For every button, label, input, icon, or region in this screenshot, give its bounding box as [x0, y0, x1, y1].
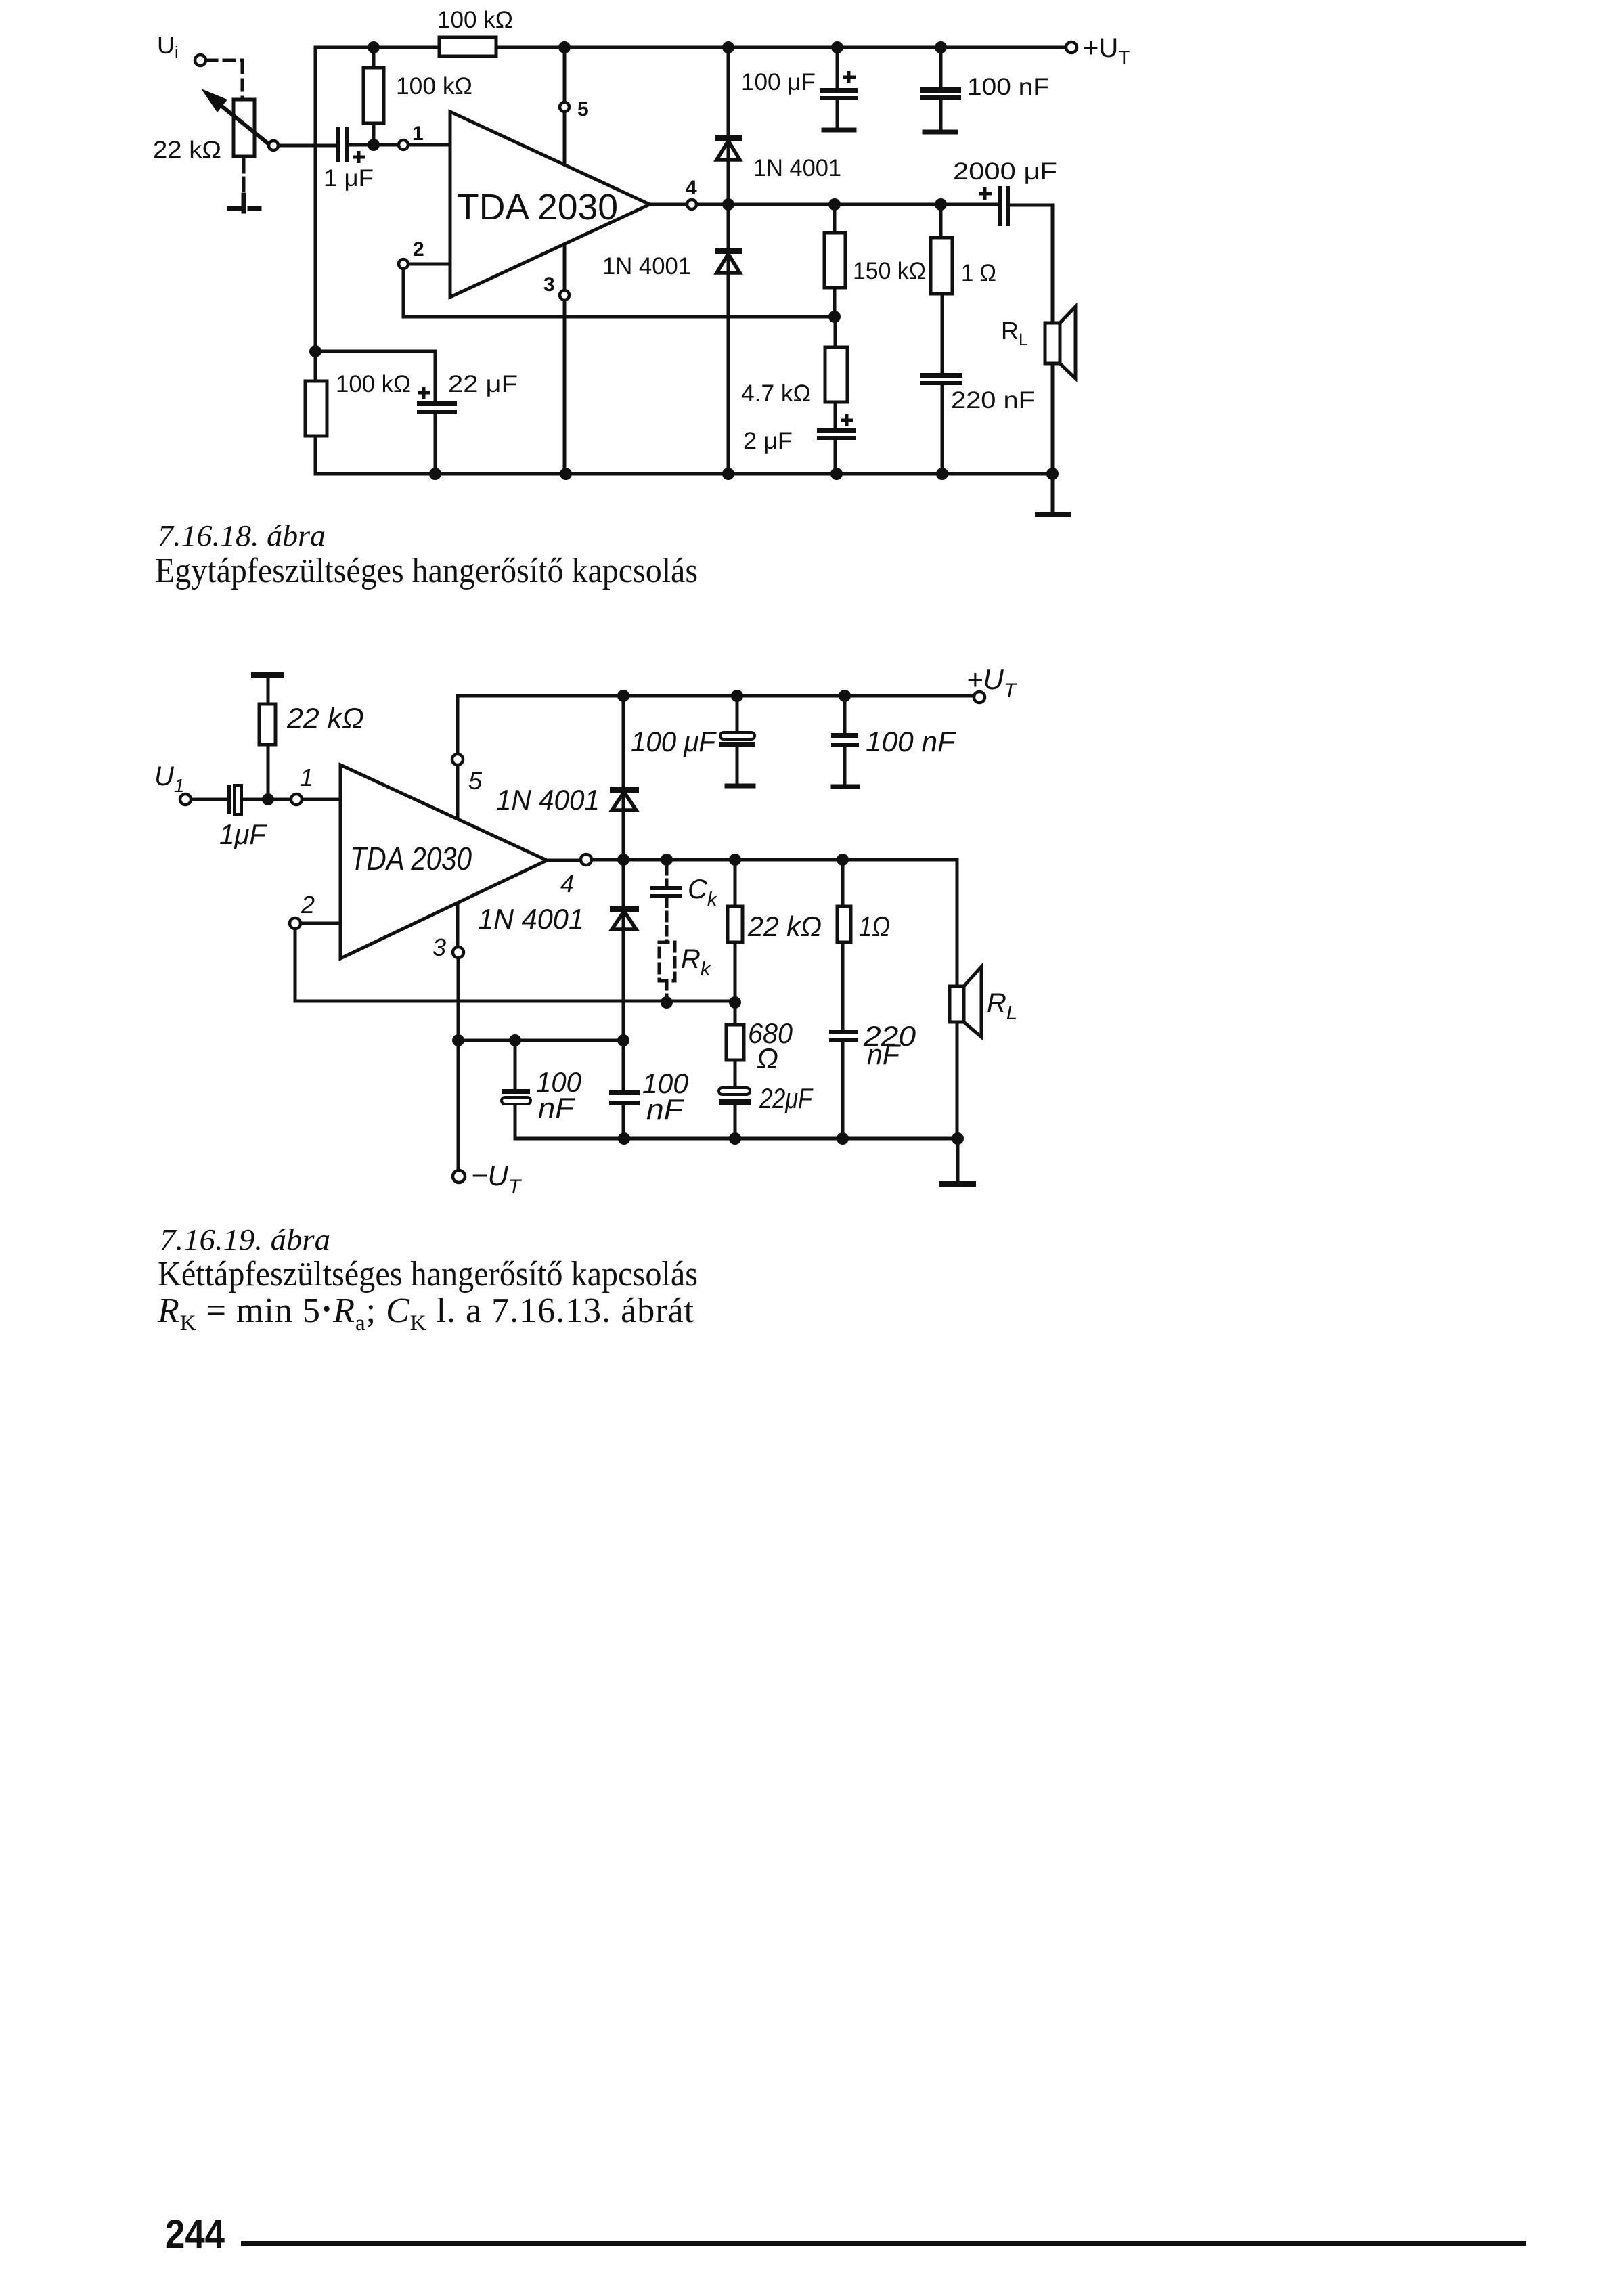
svg-text:100 μF: 100 μF	[631, 726, 717, 757]
svg-text:nF: nF	[646, 1093, 685, 1125]
svg-text:100 kΩ: 100 kΩ	[437, 7, 513, 33]
svg-text:100 nF: 100 nF	[967, 74, 1049, 100]
svg-text:22 kΩ: 22 kΩ	[286, 702, 364, 734]
svg-text:Ω: Ω	[757, 1042, 778, 1074]
svg-text:Rk: Rk	[681, 944, 711, 980]
svg-text:3: 3	[543, 273, 555, 296]
svg-text:4.7 kΩ: 4.7 kΩ	[741, 380, 811, 407]
svg-text:100 kΩ: 100 kΩ	[396, 73, 472, 100]
svg-text:RL: RL	[987, 988, 1017, 1024]
svg-text:nF: nF	[867, 1038, 901, 1070]
svg-text:150 kΩ: 150 kΩ	[853, 258, 926, 284]
svg-text:Ck: Ck	[688, 875, 718, 910]
svg-text:1μF: 1μF	[219, 818, 267, 850]
svg-text:22 kΩ: 22 kΩ	[153, 137, 221, 163]
svg-text:1N 4001: 1N 4001	[602, 253, 691, 280]
svg-text:nF: nF	[538, 1092, 576, 1124]
svg-text:RK = min 5·Ra; CK l. a 7.16.13: RK = min 5·Ra; CK l. a 7.16.13. ábrát	[157, 1290, 694, 1335]
svg-text:4: 4	[686, 177, 697, 199]
svg-text:2 μF: 2 μF	[743, 428, 793, 454]
svg-text:TDA 2030: TDA 2030	[350, 841, 472, 877]
svg-text:100 kΩ: 100 kΩ	[336, 371, 411, 397]
svg-text:22 kΩ: 22 kΩ	[747, 910, 822, 942]
svg-text:TDA 2030: TDA 2030	[457, 187, 618, 227]
svg-text:5: 5	[468, 767, 483, 795]
svg-text:22μF: 22μF	[759, 1082, 814, 1114]
svg-text:244: 244	[165, 2211, 225, 2257]
svg-text:5: 5	[577, 98, 589, 120]
svg-text:U1: U1	[154, 761, 184, 796]
svg-text:Egytápfeszültséges hangerősítő: Egytápfeszültséges hangerősítő kapcsolás	[155, 552, 698, 590]
svg-text:1 Ω: 1 Ω	[961, 260, 996, 286]
svg-text:2: 2	[301, 891, 315, 919]
svg-text:1N 4001: 1N 4001	[496, 784, 600, 816]
svg-text:100 μF: 100 μF	[741, 69, 816, 95]
svg-text:+UT: +UT	[1083, 33, 1130, 68]
svg-text:100 nF: 100 nF	[866, 726, 956, 757]
svg-text:1 μF: 1 μF	[324, 165, 374, 192]
svg-text:4: 4	[560, 870, 574, 898]
svg-text:1: 1	[412, 123, 424, 145]
svg-text:3: 3	[432, 933, 446, 961]
svg-text:2000 μF: 2000 μF	[953, 158, 1057, 185]
svg-text:7.16.19. ábra: 7.16.19. ábra	[160, 1223, 330, 1256]
svg-text:1Ω: 1Ω	[859, 910, 890, 942]
svg-text:RL: RL	[1001, 317, 1028, 349]
svg-text:1N 4001: 1N 4001	[753, 155, 841, 181]
svg-text:2: 2	[413, 238, 424, 261]
svg-text:Ui: Ui	[157, 31, 179, 62]
svg-text:1: 1	[300, 764, 313, 791]
svg-text:Kéttápfeszültséges hangerősítő: Kéttápfeszültséges hangerősítő kapcsolás	[158, 1255, 698, 1294]
svg-text:−UT: −UT	[471, 1160, 523, 1198]
svg-text:220 nF: 220 nF	[951, 387, 1035, 414]
svg-text:1N 4001: 1N 4001	[478, 903, 584, 935]
svg-text:7.16.18. ábra: 7.16.18. ábra	[158, 519, 326, 552]
svg-text:22 μF: 22 μF	[448, 371, 518, 397]
